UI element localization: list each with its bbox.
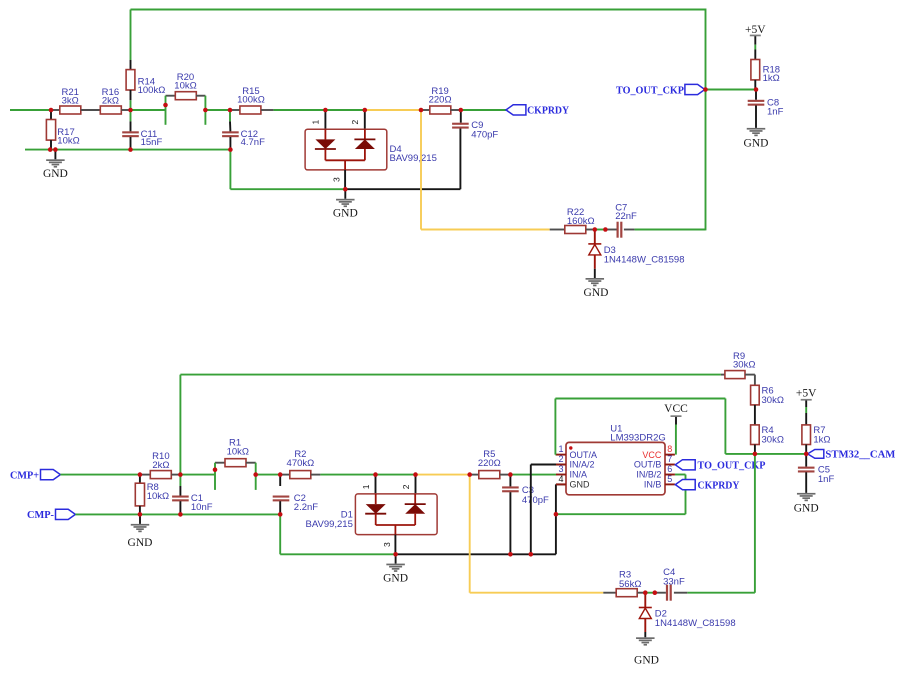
svg-text:BAV99,215: BAV99,215 xyxy=(306,519,353,530)
svg-text:IN/B: IN/B xyxy=(644,480,662,490)
svg-text:GND: GND xyxy=(128,537,153,549)
svg-text:CKPRDY: CKPRDY xyxy=(527,106,569,117)
resistor R10 xyxy=(140,474,150,476)
wire yellow down bottom xyxy=(469,475,471,593)
op-amp U1 xyxy=(566,442,665,494)
svg-text:OUT/A: OUT/A xyxy=(570,450,598,460)
svg-text:GND: GND xyxy=(634,654,659,666)
svg-text:LM393DR2G: LM393DR2G xyxy=(610,433,665,444)
capacitor C11 xyxy=(130,110,132,121)
diode D2 xyxy=(644,593,646,608)
wire D4 pin1-pin2 xyxy=(325,109,364,111)
wire gnd bus left xyxy=(25,149,230,151)
port TO_OUT_CKP bottom xyxy=(675,460,695,470)
wire R9-R6 xyxy=(754,375,756,386)
svg-text:6: 6 xyxy=(667,464,672,474)
svg-text:IN/A: IN/A xyxy=(570,470,588,480)
wire C7 to TO_OUT_CKP net xyxy=(635,229,706,231)
svg-text:4: 4 xyxy=(558,474,563,484)
wire R5-U1 pin3 xyxy=(510,474,556,476)
wire IN/B2 loop xyxy=(556,513,686,515)
svg-text:7: 7 xyxy=(667,454,672,464)
resistor R9 xyxy=(721,374,726,376)
svg-text:100kΩ: 100kΩ xyxy=(237,95,265,106)
U1 pin7 OUT/B xyxy=(665,464,675,466)
wire R21-R16 xyxy=(81,109,101,111)
U1 pin6 IN/B/2 xyxy=(665,474,675,476)
wire R1 right riser xyxy=(255,463,257,490)
svg-text:33nF: 33nF xyxy=(663,576,685,587)
svg-text:10kΩ: 10kΩ xyxy=(174,81,196,92)
wire net down from top xyxy=(179,375,181,475)
svg-text:10kΩ: 10kΩ xyxy=(227,446,249,457)
U1 pin1 OUT/A xyxy=(556,454,566,456)
ground GND2 xyxy=(344,189,346,199)
svg-text:IN/B/2: IN/B/2 xyxy=(636,470,661,480)
junction (555.9,514.2) xyxy=(554,512,559,517)
capacitor C4 xyxy=(655,592,666,594)
ground GND1 xyxy=(54,150,56,160)
resistor R14 xyxy=(126,70,135,90)
wire yellow down xyxy=(420,110,422,230)
svg-text:VCC: VCC xyxy=(642,450,662,460)
junction (594.8,229.5) xyxy=(593,227,598,232)
resistor R20 xyxy=(166,95,176,97)
ground GND6 xyxy=(395,554,397,563)
svg-text:2.2nF: 2.2nF xyxy=(294,502,318,513)
svg-text:3kΩ: 3kΩ xyxy=(62,96,79,107)
svg-text:470pF: 470pF xyxy=(522,495,549,506)
U1 pin4 GND xyxy=(556,483,566,485)
resistor R18 xyxy=(751,60,760,80)
U1 pin3 IN/A xyxy=(556,474,566,476)
wire R14 bottom xyxy=(130,90,132,100)
wire C2 down to D1 gnd xyxy=(279,514,281,554)
svg-text:1N4148W_C81598: 1N4148W_C81598 xyxy=(655,618,736,629)
wire main to R20 riser xyxy=(131,109,166,111)
wire down to R3 net xyxy=(754,454,756,593)
capacitor C7 xyxy=(605,229,616,231)
svg-text:BAV99,215: BAV99,215 xyxy=(390,153,437,164)
svg-text:1nF: 1nF xyxy=(818,474,835,485)
diode D1 xyxy=(375,475,377,494)
wire R20 left riser xyxy=(165,96,167,125)
junction (139.9,474.6) xyxy=(138,472,143,477)
svg-text:56kΩ: 56kΩ xyxy=(619,579,641,590)
svg-text:30kΩ: 30kΩ xyxy=(733,360,755,371)
resistor R19 xyxy=(421,109,430,111)
junction (469.7,474.6) xyxy=(467,472,472,477)
wire D4 pin3 xyxy=(344,170,346,189)
svg-text:1nF: 1nF xyxy=(767,107,784,118)
svg-text:10kΩ: 10kΩ xyxy=(147,491,169,502)
wire R14 riser xyxy=(130,10,132,61)
ground GND3 xyxy=(586,278,605,280)
junction (51,110) xyxy=(49,108,54,113)
svg-text:+5V: +5V xyxy=(796,388,817,400)
junction (421,110) xyxy=(419,108,424,113)
svg-text:GND: GND xyxy=(570,480,591,490)
svg-text:10nF: 10nF xyxy=(191,502,213,513)
svg-text:IN/A/2: IN/A/2 xyxy=(570,460,595,470)
junction (345.3,189.2) xyxy=(343,187,348,192)
svg-text:1kΩ: 1kΩ xyxy=(763,73,780,84)
wire yellow D4-R19 xyxy=(365,109,421,111)
port CKPRDY top xyxy=(506,105,526,115)
port TO_OUT_CKP top xyxy=(685,84,705,94)
wire D1 pin3 xyxy=(394,535,396,555)
capacitor C9 xyxy=(460,110,462,123)
junction (806.2,453.9) xyxy=(804,452,809,457)
resistor R8 xyxy=(139,475,141,484)
resistor R21 xyxy=(51,109,60,111)
resistor R2 xyxy=(280,474,290,476)
svg-text:2: 2 xyxy=(558,454,563,464)
svg-text:160kΩ: 160kΩ xyxy=(567,216,595,227)
svg-text:VCC: VCC xyxy=(664,403,688,415)
svg-text:GND: GND xyxy=(43,168,68,180)
wire long top net xyxy=(180,374,721,376)
wire R2-D1 xyxy=(320,474,375,476)
resistor R22 xyxy=(550,229,565,231)
svg-text:30kΩ: 30kΩ xyxy=(762,435,784,446)
wire R1-R2 xyxy=(256,474,281,476)
junction (215,469.7) xyxy=(213,467,218,472)
capacitor C8 xyxy=(755,90,757,100)
wire top bus xyxy=(131,9,706,11)
wire R1 left riser xyxy=(214,463,216,490)
capacitor C3 xyxy=(509,475,511,487)
svg-text:1: 1 xyxy=(558,444,563,454)
svg-text:CMP-: CMP- xyxy=(27,510,54,521)
svg-text:STM32__CAM: STM32__CAM xyxy=(825,450,895,461)
junction (130.5,149.6) xyxy=(128,147,133,152)
wire divider to port xyxy=(755,453,806,455)
wire to CKPRDY xyxy=(461,109,506,111)
wire C9 return xyxy=(345,188,460,190)
junction (130.5,110) xyxy=(128,108,133,113)
junction (510.4,474.6) xyxy=(508,472,513,477)
wire D1 pin1-pin2 xyxy=(376,474,416,476)
junction (364.8,110) xyxy=(363,108,368,113)
capacitor C12 xyxy=(229,110,231,121)
svg-text:1N4148W_C81598: 1N4148W_C81598 xyxy=(604,254,685,265)
wire to R18 xyxy=(706,89,757,91)
junction (255.7,474.6) xyxy=(253,472,258,477)
resistor R4 xyxy=(751,425,760,445)
junction (460.8,110) xyxy=(459,108,464,113)
resistor R1 xyxy=(215,462,225,464)
port CKPRDY bottom xyxy=(675,480,695,490)
junction (230.4,149.6) xyxy=(228,147,233,152)
svg-text:+5V: +5V xyxy=(745,24,766,36)
svg-text:5: 5 xyxy=(667,474,672,484)
svg-text:15nF: 15nF xyxy=(141,137,163,148)
junction (605.4,229.5) xyxy=(603,227,608,232)
resistor R5 xyxy=(470,474,479,476)
svg-text:1kΩ: 1kΩ xyxy=(813,435,830,446)
junction (205.4,110) xyxy=(203,108,208,113)
svg-text:GND: GND xyxy=(584,287,609,299)
ground GND4 xyxy=(747,128,766,130)
wire IN/A2 feedback xyxy=(530,465,532,555)
junction (139.9,514.4) xyxy=(138,512,143,517)
wire R6-R4 xyxy=(754,405,756,425)
junction (654.8,592.7) xyxy=(653,590,658,595)
svg-text:OUT/B: OUT/B xyxy=(634,460,662,470)
junction (325.4,110) xyxy=(323,108,328,113)
ground GND8 xyxy=(636,637,655,639)
svg-text:GND: GND xyxy=(794,503,819,515)
wire R20 right riser xyxy=(204,96,206,125)
svg-text:CKPRDY: CKPRDY xyxy=(698,480,740,491)
svg-text:30kΩ: 30kΩ xyxy=(762,395,784,406)
svg-text:GND: GND xyxy=(744,138,769,150)
resistor R15 xyxy=(230,109,240,111)
svg-text:470kΩ: 470kΩ xyxy=(287,458,315,469)
junction (50.2,149.6) xyxy=(48,147,53,152)
wire R20-R15 xyxy=(205,109,230,111)
svg-text:2: 2 xyxy=(350,120,360,125)
junction (705.5,89.5) xyxy=(703,87,708,92)
wire D3-C7 xyxy=(595,229,606,231)
port STM32__CAM xyxy=(808,450,824,459)
wire yellow D1-R5 xyxy=(416,474,470,476)
junction (395.6,554.3) xyxy=(393,552,398,557)
capacitor C2 xyxy=(279,475,281,486)
junction (280.2,514.4) xyxy=(278,512,283,517)
svg-text:TO_OUT_CKP: TO_OUT_CKP xyxy=(616,85,685,96)
wire C12 down to D4 gnd xyxy=(229,150,231,190)
wire CMP- bus xyxy=(75,513,280,515)
svg-text:GND: GND xyxy=(383,573,408,585)
svg-text:2kΩ: 2kΩ xyxy=(152,460,169,471)
diode D3 xyxy=(594,230,596,244)
junction (180.4,514.4) xyxy=(178,512,183,517)
junction (415.5,474.6) xyxy=(413,472,418,477)
svg-text:1: 1 xyxy=(311,120,321,125)
wire D2-C4 xyxy=(645,592,655,594)
junction (510.4,554.3) xyxy=(508,552,513,557)
resistor R16 xyxy=(100,106,121,114)
ground GND7 xyxy=(797,493,816,495)
svg-text:2: 2 xyxy=(401,484,411,489)
junction (230,110) xyxy=(228,108,233,113)
wire black gnd bus xyxy=(396,553,556,555)
junction (530.8,554.3) xyxy=(529,552,534,557)
resistor R17 xyxy=(50,110,52,120)
svg-text:470pF: 470pF xyxy=(471,129,498,140)
U1 pin2 IN/A/2 xyxy=(556,464,566,466)
junction (280.2,474.6) xyxy=(278,472,283,477)
ground GND5 xyxy=(139,514,141,524)
svg-text:CMP+: CMP+ xyxy=(10,470,39,481)
svg-text:3: 3 xyxy=(558,464,563,474)
junction (180.4,474.6) xyxy=(178,472,183,477)
svg-text:3: 3 xyxy=(382,542,392,547)
wire VCC-pin8 xyxy=(675,425,677,455)
wire main left xyxy=(10,109,51,111)
U1 pin8 VCC xyxy=(665,454,675,456)
port CMP- xyxy=(56,509,76,519)
svg-text:2kΩ: 2kΩ xyxy=(102,96,119,107)
svg-text:3: 3 xyxy=(331,177,341,182)
resistor R7 xyxy=(802,425,811,445)
resistor R6 xyxy=(751,385,760,405)
svg-text:8: 8 xyxy=(667,444,672,454)
U1 pin5 IN/B xyxy=(665,483,675,485)
svg-text:220Ω: 220Ω xyxy=(429,95,452,106)
port CMP+ xyxy=(41,470,61,480)
junction (165.5,105) xyxy=(163,103,168,108)
svg-text:4.7nF: 4.7nF xyxy=(241,137,265,148)
svg-text:1: 1 xyxy=(361,484,371,489)
wire R15-D4 xyxy=(274,109,326,111)
svg-text:GND: GND xyxy=(333,207,358,219)
junction (375.5,474.6) xyxy=(373,472,378,477)
diode D4 xyxy=(324,110,326,129)
svg-text:220Ω: 220Ω xyxy=(478,458,501,469)
wire main to R1 riser xyxy=(180,474,215,476)
svg-text:22nF: 22nF xyxy=(615,211,637,222)
junction (55.4,149.6) xyxy=(53,147,58,152)
resistor R3 xyxy=(603,592,616,594)
svg-text:10kΩ: 10kΩ xyxy=(57,136,79,147)
wire CMP+ main xyxy=(60,474,139,476)
junction (754.9,453.9) xyxy=(753,452,758,457)
wire OUT/A loop xyxy=(554,454,557,456)
junction (645.3,592.7) xyxy=(643,590,648,595)
capacitor C1 xyxy=(179,475,181,486)
svg-text:100kΩ: 100kΩ xyxy=(138,85,166,96)
junction (756,89.5) xyxy=(754,87,759,92)
capacitor C5 xyxy=(805,454,807,467)
